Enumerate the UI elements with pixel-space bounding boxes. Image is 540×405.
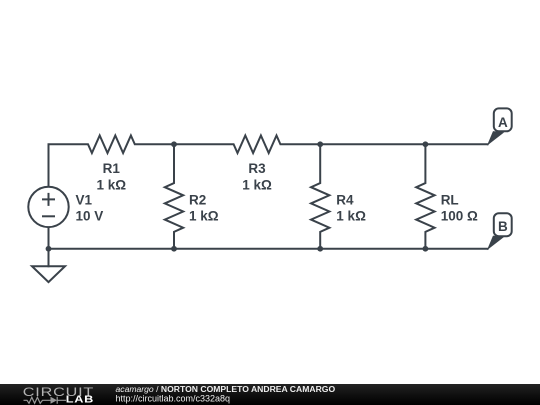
svg-text:1 kΩ: 1 kΩ: [189, 209, 219, 224]
svg-text:R3: R3: [248, 161, 266, 176]
svg-text:acamargo / NORTON COMPLETO AND: acamargo / NORTON COMPLETO ANDREA CAMARG…: [116, 384, 336, 394]
svg-text:1 kΩ: 1 kΩ: [242, 177, 272, 192]
svg-text:V1: V1: [76, 192, 93, 207]
svg-text:100 Ω: 100 Ω: [441, 209, 478, 224]
svg-text:1 kΩ: 1 kΩ: [97, 177, 127, 192]
svg-text:R4: R4: [336, 192, 354, 207]
svg-text:RL: RL: [441, 192, 459, 207]
svg-text:10 V: 10 V: [76, 209, 104, 224]
svg-text:http://circuitlab.com/c332a8q: http://circuitlab.com/c332a8q: [116, 394, 231, 404]
svg-text:R1: R1: [103, 161, 121, 176]
svg-text:R2: R2: [189, 192, 206, 207]
svg-text:A: A: [498, 115, 508, 130]
svg-text:LAB: LAB: [66, 395, 94, 405]
svg-text:B: B: [498, 219, 508, 234]
svg-text:1 kΩ: 1 kΩ: [336, 209, 366, 224]
